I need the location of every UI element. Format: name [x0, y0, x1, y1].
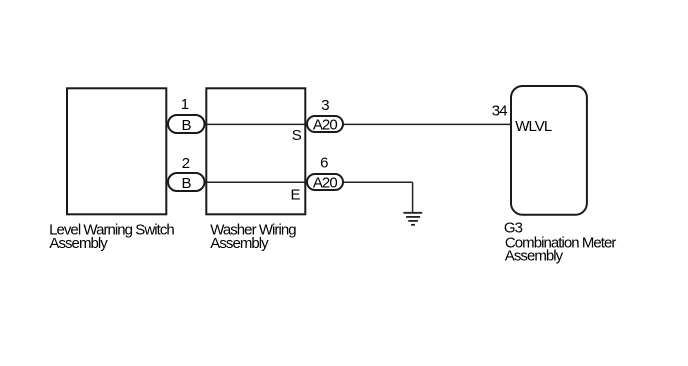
node label WLVL [515, 118, 552, 135]
svg-text:WLVL: WLVL [515, 118, 552, 135]
svg-text:6: 6 [320, 154, 328, 171]
level warning switch assembly box [67, 88, 166, 214]
washer wiring assembly box [206, 88, 305, 214]
pin number 2 [182, 155, 190, 172]
svg-text:1: 1 [181, 96, 189, 113]
svg-text:B: B [181, 117, 191, 134]
svg-text:3: 3 [321, 97, 329, 114]
svg-text:2: 2 [182, 155, 190, 172]
svg-text:A20: A20 [313, 174, 337, 191]
connector oval A20 pin 6 [307, 174, 343, 190]
svg-text:S: S [292, 127, 302, 144]
svg-text:Assembly: Assembly [505, 248, 564, 265]
svg-text:A20: A20 [313, 116, 337, 133]
caption: Level Warning Switch Assembly [49, 221, 174, 252]
svg-text:E: E [290, 187, 300, 204]
caption: Washer Wiring Assembly [210, 222, 296, 252]
terminal label B (pin 1) [181, 117, 191, 134]
svg-text:Assembly: Assembly [49, 235, 108, 252]
pin number 34 [492, 103, 507, 120]
combination meter assembly box U-G3 [511, 86, 587, 215]
wire W2 vertical drop to ground [412, 182, 414, 213]
terminal letter S [292, 127, 302, 144]
connector oval B pin 2 [168, 173, 205, 191]
pin number 3 [321, 97, 329, 114]
terminal letter E [290, 187, 300, 204]
caption: G3 Combination Meter Assembly [504, 219, 617, 264]
wire W1 (switch B1 to meter pin 34) [172, 123, 511, 125]
svg-text:B: B [181, 175, 191, 192]
connector label A20 (pin 3) [313, 116, 337, 133]
ground symbol [403, 213, 422, 225]
connector oval B pin 1 [168, 115, 205, 133]
connector label A20 (pin 6) [313, 174, 337, 191]
svg-text:34: 34 [492, 103, 507, 120]
terminal label B (pin 2) [181, 175, 191, 192]
connector oval A20 pin 3 [307, 116, 343, 132]
pin number 1 [181, 96, 189, 113]
wire W2 (switch B2 to ground, horizontal) [172, 181, 413, 183]
svg-text:Assembly: Assembly [210, 235, 269, 252]
pin number 6 [320, 154, 328, 171]
